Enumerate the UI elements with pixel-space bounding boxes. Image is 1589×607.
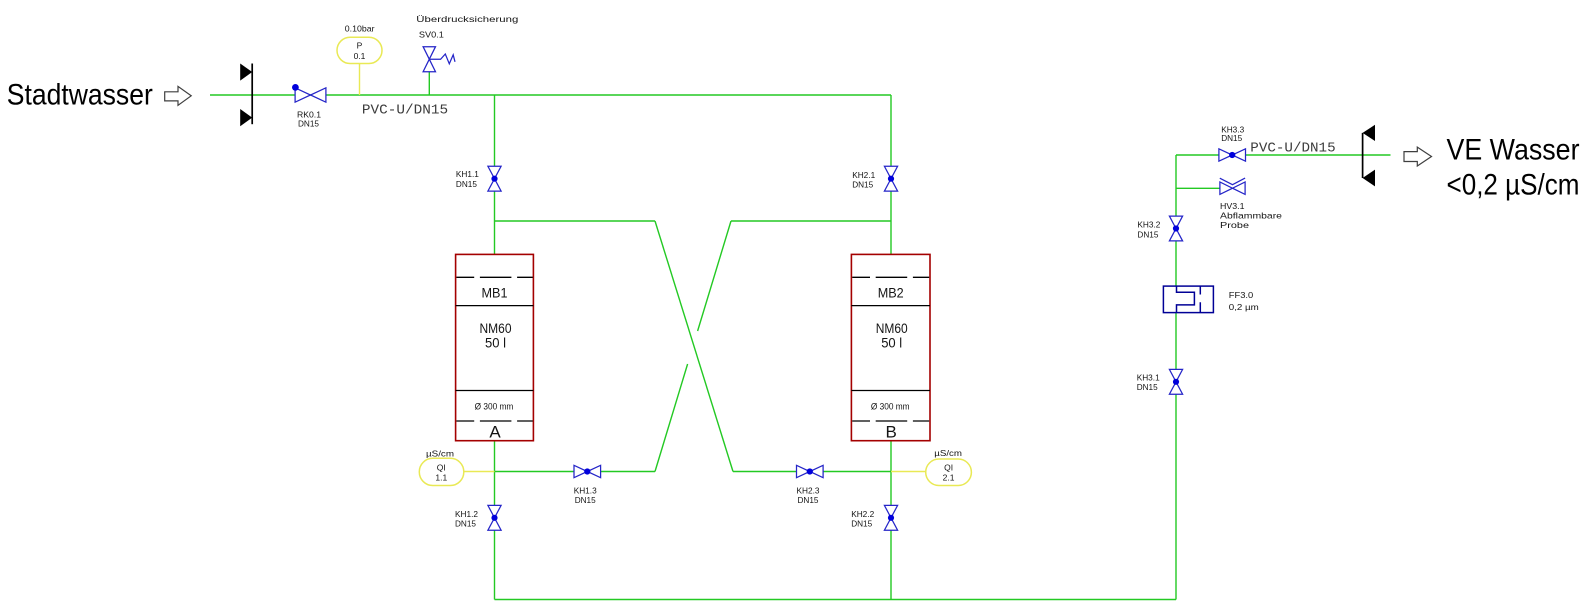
vessel MB1 — [456, 254, 534, 440]
svg-text:DN15: DN15 — [798, 495, 819, 505]
valve KH2.1 — [884, 166, 897, 191]
svg-text:Stadtwasser: Stadtwasser — [7, 79, 153, 112]
svg-text:P: P — [357, 40, 363, 50]
wire crossover diagonal 1 — [655, 221, 733, 472]
label NM60 50 l (MB2) — [876, 320, 908, 351]
label KH2.2 DN15 — [851, 509, 874, 529]
svg-text:A: A — [489, 423, 501, 442]
relief valve SV0.1 — [423, 47, 455, 72]
wire column 1 outlet — [494, 441, 496, 600]
valve KH1.3 — [574, 465, 601, 477]
wire column 2 outlet — [890, 441, 892, 600]
svg-text:0.10bar: 0.10bar — [345, 24, 375, 34]
svg-text:KH2.3: KH2.3 — [797, 486, 820, 496]
svg-text:DN15: DN15 — [1137, 229, 1158, 239]
svg-text:0,2 µm: 0,2 µm — [1229, 302, 1259, 312]
svg-text:KH3.1: KH3.1 — [1137, 372, 1160, 382]
flow arrow outlet — [1404, 147, 1432, 166]
instrument QI1.1 — [419, 458, 464, 485]
wire bottom left header — [495, 471, 656, 473]
label KH2.3 DN15 — [797, 486, 820, 506]
svg-text:DN15: DN15 — [456, 179, 477, 189]
svg-text:50 l: 50 l — [485, 335, 506, 351]
svg-text:KH3.2: KH3.2 — [1137, 220, 1160, 230]
svg-text:PVC-U/DN15: PVC-U/DN15 — [362, 102, 448, 118]
valve KH3.3 — [1219, 149, 1246, 161]
wire outlet header — [1176, 154, 1391, 156]
svg-text:QI: QI — [437, 463, 446, 473]
valve KH3.1 — [1169, 369, 1182, 394]
svg-text:B: B — [886, 423, 897, 442]
svg-text:2.1: 2.1 — [943, 473, 955, 483]
flow arrow inlet — [165, 86, 192, 105]
valve KH3.2 — [1169, 216, 1182, 241]
valve KH1.2 — [488, 505, 501, 530]
valve KH2.3 — [797, 465, 824, 477]
svg-text:NM60: NM60 — [480, 320, 512, 336]
svg-text:Abflammbare: Abflammbare — [1220, 210, 1282, 220]
wire P0.1 impulse line — [359, 64, 361, 96]
svg-text:DN15: DN15 — [575, 495, 596, 505]
flange inlet — [240, 64, 252, 127]
svg-text:KH2.1: KH2.1 — [852, 170, 875, 180]
label KH3.3 DN15 — [1221, 125, 1244, 144]
vessel MB2 — [851, 254, 930, 440]
label HV3.1 Abflammbare Probe — [1220, 201, 1282, 230]
wire riser — [1175, 155, 1177, 600]
svg-text:QI: QI — [944, 463, 953, 473]
wire crossover top left — [495, 220, 656, 222]
label KH2.1 DN15 — [852, 170, 875, 190]
label KH1.2 DN15 — [455, 509, 478, 529]
svg-text:µS/cm: µS/cm — [934, 448, 962, 458]
label RK0.1 DN15 — [297, 109, 321, 128]
valve RK0.1 — [292, 84, 326, 102]
label KH1.3 DN15 — [574, 486, 597, 506]
svg-text:KH2.2: KH2.2 — [851, 509, 874, 519]
svg-text:PVC-U/DN15: PVC-U/DN15 — [1250, 141, 1335, 157]
svg-text:MB1: MB1 — [482, 285, 508, 301]
wire SV0.1 stub — [428, 72, 430, 95]
svg-text:SV0.1: SV0.1 — [419, 29, 444, 39]
wire probe branch — [1176, 187, 1220, 189]
label KH1.1 DN15 — [456, 169, 479, 189]
label FF3.0 0,2 um — [1229, 290, 1259, 312]
label KH3.1 DN15 — [1137, 372, 1160, 392]
filter FF3.0 — [1163, 286, 1213, 313]
svg-text:MB2: MB2 — [878, 285, 904, 301]
svg-text:DN15: DN15 — [852, 179, 873, 189]
wire column 1 feed — [494, 95, 496, 254]
svg-text:Ø 300 mm: Ø 300 mm — [871, 402, 910, 413]
sample valve HV3.1 — [1220, 178, 1245, 194]
svg-text:KH1.3: KH1.3 — [574, 486, 597, 496]
wire bottom right header — [733, 471, 891, 473]
svg-text:Probe: Probe — [1220, 220, 1249, 230]
label Ueberdrucksicherung SV0.1 — [416, 14, 518, 39]
svg-text:NM60: NM60 — [876, 320, 908, 336]
svg-text:µS/cm: µS/cm — [426, 448, 454, 458]
instrument QI2.1 — [926, 459, 972, 486]
flange outlet — [1363, 125, 1375, 187]
wire column 2 feed — [890, 95, 892, 254]
svg-text:0.1: 0.1 — [354, 51, 366, 61]
wire crossover diagonal 2 (broken at crossing) — [655, 221, 731, 472]
wire crossover top right — [731, 220, 891, 222]
svg-text:DN15: DN15 — [1221, 133, 1242, 143]
wire QI2.1 link — [891, 471, 926, 473]
svg-text:50 l: 50 l — [881, 335, 902, 351]
wire QI1.1 link — [464, 471, 495, 473]
label KH3.2 DN15 — [1137, 220, 1160, 240]
svg-text:Überdrucksicherung: Überdrucksicherung — [416, 14, 518, 24]
svg-text:DN15: DN15 — [851, 519, 872, 529]
wire bottom bus — [495, 599, 1177, 601]
wire inlet header — [210, 94, 891, 96]
svg-text:KH1.1: KH1.1 — [456, 169, 479, 179]
svg-text:DN15: DN15 — [455, 519, 476, 529]
valve KH2.2 — [884, 505, 897, 530]
valve KH1.1 — [488, 166, 501, 191]
svg-text:1.1: 1.1 — [435, 473, 447, 483]
svg-text:VE Wasser: VE Wasser — [1447, 134, 1580, 167]
svg-text:DN15: DN15 — [1137, 382, 1158, 392]
svg-text:DN15: DN15 — [298, 118, 319, 128]
instrument P0.1 — [337, 37, 382, 63]
svg-text:<0,2 µS/cm: <0,2 µS/cm — [1447, 169, 1580, 202]
svg-text:FF3.0: FF3.0 — [1229, 290, 1254, 300]
label NM60 50 l — [480, 320, 512, 351]
svg-text:KH1.2: KH1.2 — [455, 509, 478, 519]
svg-text:Ø 300 mm: Ø 300 mm — [475, 402, 514, 413]
